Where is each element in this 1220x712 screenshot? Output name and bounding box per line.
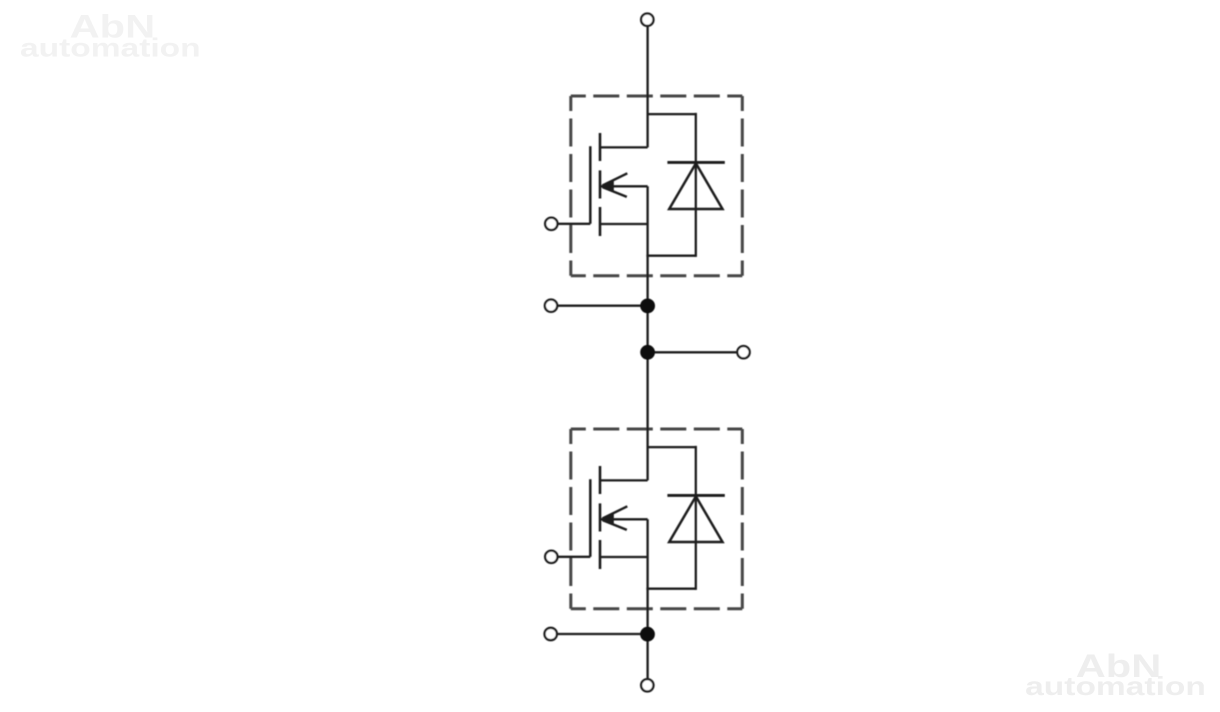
svg-text:automation: automation	[1025, 672, 1206, 701]
svg-text:automation: automation	[20, 34, 201, 63]
